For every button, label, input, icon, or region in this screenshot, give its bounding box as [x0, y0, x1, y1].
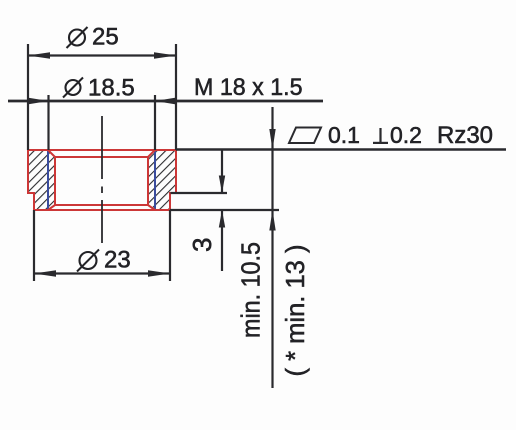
svg-text:25: 25 [92, 24, 119, 51]
thread major diameter line right (blue) [154, 150, 156, 210]
top chamfer ring [55, 156, 148, 158]
dimension 3 [219, 150, 225, 272]
svg-text:18.5: 18.5 [88, 75, 135, 102]
outer edge right [170, 150, 176, 210]
svg-text:( * min. 13 ): ( * min. 13 ) [280, 245, 310, 377]
arrow right [148, 270, 170, 277]
extension line right [175, 44, 177, 150]
dimension ⌀25 [28, 44, 176, 150]
extension line right [169, 210, 171, 281]
dimension ⌀23 [34, 210, 170, 281]
dimension line [34, 272, 170, 274]
svg-text:23: 23 [104, 247, 131, 274]
dimension ⌀18.5 with thread callout line [8, 95, 323, 150]
svg-text:0.2: 0.2 [390, 122, 422, 148]
top chamfer diagonal right [148, 150, 155, 157]
arrow right [154, 52, 176, 59]
arrow left (outside, pointing right) [29, 98, 49, 104]
min 10.5 dimension vertical line [269, 107, 275, 388]
bottom chamfer ring [55, 204, 148, 206]
svg-text:Rz30: Rz30 [437, 122, 493, 149]
outer edge left [28, 150, 34, 210]
long dimension line [8, 100, 323, 103]
hatching left wall section [28, 150, 55, 210]
hatching right wall section [148, 150, 176, 210]
arrow left [28, 52, 50, 59]
arrow up at bottom [219, 210, 225, 228]
flatness symbol (parallelogram) [289, 128, 321, 144]
arrow down at top face [269, 129, 275, 150]
top face extension line to right [176, 148, 506, 150]
bore wall right [147, 157, 149, 205]
extension line right [154, 95, 156, 150]
text ⌀ 23 [77, 247, 131, 274]
svg-text:M 18 x 1.5: M 18 x 1.5 [194, 74, 303, 101]
arrow down at step [219, 176, 225, 194]
arrow right (outside, pointing left) [155, 98, 175, 104]
svg-text:min. 10.5: min. 10.5 [236, 242, 266, 338]
bottom chamfer diagonal right [148, 205, 155, 210]
bottom face extension line to right [170, 209, 279, 211]
bottom chamfer diagonal left [48, 205, 55, 210]
bore wall left [54, 157, 56, 205]
extension line left [27, 44, 29, 150]
top face [28, 149, 176, 151]
part outline (red) [28, 150, 176, 210]
text ⌀ 25 [67, 24, 119, 51]
bottom face [34, 209, 170, 211]
top chamfer diagonal left [48, 150, 55, 157]
perpendicularity symbol [373, 128, 388, 143]
thread major diameter line left (blue) [47, 150, 49, 210]
arrow left [34, 270, 56, 277]
extension line left [33, 210, 35, 281]
text ⌀ 18.5 [63, 75, 135, 102]
svg-text:3: 3 [187, 238, 217, 252]
step extension line (for 3 dim) [171, 192, 228, 194]
extension line left [47, 95, 49, 150]
arrow up at bottom face [269, 210, 275, 231]
svg-text:0.1: 0.1 [328, 122, 360, 148]
centerline [101, 116, 103, 243]
dimension line [28, 54, 176, 56]
